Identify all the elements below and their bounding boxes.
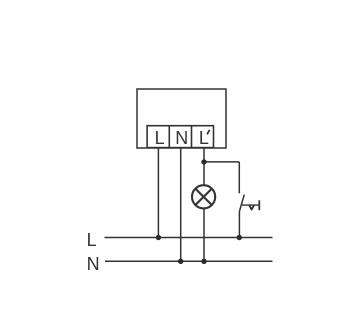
svg-text:N: N — [175, 128, 188, 148]
svg-text:L: L — [199, 128, 209, 148]
svg-text:L: L — [87, 230, 97, 250]
svg-text:N: N — [87, 254, 100, 274]
svg-text:L: L — [155, 128, 165, 148]
